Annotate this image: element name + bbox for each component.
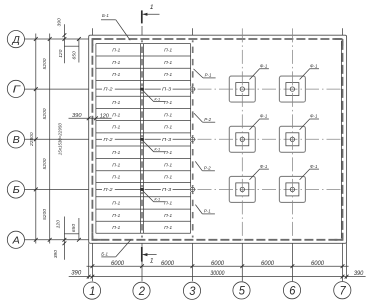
dim tick xyxy=(34,188,38,192)
axis bubble Б xyxy=(7,181,24,198)
svg-text:6000: 6000 xyxy=(111,260,124,267)
beam label Б-1 top xyxy=(101,13,130,40)
svg-text:П-1: П-1 xyxy=(112,174,121,179)
row line xyxy=(115,138,140,140)
svg-text:В: В xyxy=(13,134,20,146)
svg-text:П-1: П-1 xyxy=(112,100,121,105)
axis line below plan to bubble xyxy=(191,243,193,281)
dim chain line (15x1530) bottom xyxy=(63,217,65,260)
svg-text:Ф-1: Ф-1 xyxy=(260,64,268,69)
joint label К-1 leader xyxy=(143,191,165,202)
svg-text:П-1: П-1 xyxy=(164,60,173,65)
svg-text:Б: Б xyxy=(13,184,20,196)
joint label К-1 leader xyxy=(143,90,165,101)
axis bubble А xyxy=(7,231,24,248)
footing center pile circle xyxy=(290,87,294,91)
axis stub above plan xyxy=(91,28,93,35)
svg-text:390: 390 xyxy=(53,250,58,259)
svg-text:6000: 6000 xyxy=(311,260,324,267)
wall corner dash xyxy=(91,233,93,240)
svg-text:П-1: П-1 xyxy=(164,125,173,130)
footing Ф-1 outer square xyxy=(279,176,305,202)
svg-text:П-2: П-2 xyxy=(103,137,113,142)
beam label Р-2 xyxy=(194,113,215,122)
axis stub above plan xyxy=(191,28,193,35)
beam label Р-1 xyxy=(194,69,216,78)
node at axis 3 (circle with cross) xyxy=(189,136,196,143)
section mark bottom bar xyxy=(141,247,143,262)
joint label К-1 leader xyxy=(143,141,165,152)
axis bubble В xyxy=(7,131,24,148)
dim tick xyxy=(48,238,52,242)
svg-text:Ф-1: Ф-1 xyxy=(310,114,318,119)
svg-text:5200: 5200 xyxy=(42,158,48,169)
axis line below plan to bubble xyxy=(291,243,293,281)
axis bubble 7 xyxy=(334,282,351,299)
node at axis 3 (circle with cross) xyxy=(189,186,196,193)
footing inner square xyxy=(286,133,299,146)
axis bubble 6 xyxy=(283,282,300,299)
row line xyxy=(173,188,190,190)
svg-text:6000: 6000 xyxy=(261,260,274,267)
dim tick xyxy=(34,37,38,41)
dim chain line (5200 intervals) xyxy=(35,34,37,244)
slab joint line xyxy=(96,208,191,210)
extension line outer face right xyxy=(346,243,348,278)
slab joint line xyxy=(96,120,191,122)
dim tick xyxy=(34,87,38,91)
slab joint line xyxy=(96,80,191,82)
beam label Р-1 xyxy=(195,205,215,214)
centerline to right wall xyxy=(198,188,342,190)
wall corner dash xyxy=(91,39,93,46)
building outer contour xyxy=(89,35,347,243)
dim tick xyxy=(341,264,345,268)
slab joint line xyxy=(96,108,191,110)
beam on axis 3 (hidden, thick dashed) xyxy=(192,40,194,237)
section mark top bar xyxy=(141,10,143,23)
svg-text:Ф-1: Ф-1 xyxy=(260,114,268,119)
svg-text:П-2: П-2 xyxy=(103,187,113,192)
svg-text:650: 650 xyxy=(71,51,76,60)
footing label Ф-1 leader xyxy=(300,69,319,80)
svg-text:П-1: П-1 xyxy=(164,150,173,155)
axis stub above plan xyxy=(342,28,344,35)
footing label Ф-1 leader xyxy=(250,69,269,80)
row axis line from bubble xyxy=(25,138,89,140)
svg-text:5: 5 xyxy=(239,284,245,298)
svg-text:30000: 30000 xyxy=(210,270,224,277)
slab edge right of axis 2 xyxy=(143,44,145,234)
wall corner dash xyxy=(92,38,100,40)
svg-text:П-1: П-1 xyxy=(164,225,173,230)
footing inner square xyxy=(236,183,249,196)
footing inner square xyxy=(286,183,299,196)
dim tick xyxy=(77,37,81,41)
wall corner dash xyxy=(335,38,343,40)
axis line below plan to bubble xyxy=(91,243,93,281)
extension line outer face left xyxy=(88,243,90,278)
row axis stub left xyxy=(96,88,102,90)
dim row line (6000 intervals) xyxy=(87,265,349,267)
slab joint line xyxy=(96,43,191,45)
slab field left edge xyxy=(95,44,97,234)
footing center pile circle xyxy=(290,137,294,141)
row line xyxy=(115,88,140,90)
dim connector top xyxy=(64,45,79,47)
dim tick xyxy=(63,241,67,245)
dim tick xyxy=(91,264,95,268)
axis bubble 2 xyxy=(133,282,150,299)
row axis stub left xyxy=(96,188,102,190)
svg-text:П-1: П-1 xyxy=(164,100,173,105)
row line xyxy=(145,138,161,140)
svg-text:1: 1 xyxy=(150,257,154,264)
svg-text:П-1: П-1 xyxy=(112,150,121,155)
dim tick xyxy=(94,116,98,120)
svg-text:П-3: П-3 xyxy=(162,87,172,92)
slab joint line xyxy=(96,196,191,198)
wall corner dash xyxy=(342,39,344,46)
svg-text:5200: 5200 xyxy=(42,58,48,69)
dim line 650 bottom xyxy=(78,218,80,240)
axis line below plan to bubble xyxy=(342,243,344,281)
beam label Р-2 xyxy=(195,161,215,170)
node at axis 3 (circle with cross) xyxy=(189,86,196,93)
footing center pile circle xyxy=(240,137,244,141)
footing center pile circle xyxy=(290,187,294,191)
svg-text:5200: 5200 xyxy=(42,209,48,220)
foundation beam hidden contour (thick dashed on grid rectangle) xyxy=(92,39,342,240)
footing inner square xyxy=(236,133,249,146)
svg-text:К-1: К-1 xyxy=(154,147,160,152)
dim tick xyxy=(63,238,67,242)
row line xyxy=(173,88,190,90)
section mark top tick xyxy=(143,13,160,15)
dim tick xyxy=(341,275,345,279)
svg-text:22800: 22800 xyxy=(29,132,35,147)
axis bubble Д xyxy=(7,30,24,47)
dim tick xyxy=(140,264,144,268)
footing label Ф-1 leader xyxy=(300,119,319,130)
node at axis 2 xyxy=(140,188,143,191)
beam label Б-1 bottom xyxy=(101,240,131,257)
row axis line from bubble xyxy=(25,239,89,241)
svg-text:П-2: П-2 xyxy=(103,87,113,92)
centerline to right wall xyxy=(198,88,342,90)
footing center pile circle xyxy=(240,87,244,91)
svg-text:П-3: П-3 xyxy=(162,137,172,142)
slab field right edge at axis 3 xyxy=(190,44,192,234)
slab joint line xyxy=(96,232,191,234)
node at axis 2 xyxy=(140,138,143,141)
svg-text:Р-2: Р-2 xyxy=(204,117,211,122)
wall corner dash xyxy=(92,239,100,241)
row axis stub left xyxy=(96,138,102,140)
svg-text:П-1: П-1 xyxy=(164,174,173,179)
svg-text:Р-1: Р-1 xyxy=(205,73,212,78)
offset dim line at row В xyxy=(69,117,112,119)
axis line below plan to bubble xyxy=(241,243,243,281)
svg-text:390: 390 xyxy=(71,270,81,277)
footing Ф-1 outer square xyxy=(229,176,255,202)
svg-text:К-1: К-1 xyxy=(154,197,160,202)
svg-text:П-1: П-1 xyxy=(164,162,173,167)
svg-text:Р-2: Р-2 xyxy=(204,166,211,171)
footing inner square xyxy=(236,83,249,96)
svg-text:А: А xyxy=(12,235,20,247)
svg-text:П-3: П-3 xyxy=(162,187,172,192)
dim tick xyxy=(291,264,295,268)
svg-text:П-1: П-1 xyxy=(112,213,121,218)
svg-text:П-1: П-1 xyxy=(112,162,121,167)
axis bubble 1 xyxy=(83,282,100,299)
inner edge right xyxy=(340,41,342,238)
dim connector bottom xyxy=(64,233,79,235)
dim tick xyxy=(345,275,349,279)
row line xyxy=(145,88,161,90)
svg-text:П-1: П-1 xyxy=(112,125,121,130)
svg-text:390: 390 xyxy=(354,270,364,277)
svg-text:6000: 6000 xyxy=(161,260,174,267)
svg-text:П-1: П-1 xyxy=(112,201,121,206)
dim tick xyxy=(240,264,244,268)
footing label Ф-1 leader xyxy=(250,119,269,130)
dim tick xyxy=(63,37,67,41)
footing center pile circle xyxy=(240,187,244,191)
svg-text:П-1: П-1 xyxy=(164,48,173,53)
svg-text:П-1: П-1 xyxy=(164,72,173,77)
axis bubble Г xyxy=(7,80,24,97)
svg-text:П-1: П-1 xyxy=(164,201,173,206)
dim tick xyxy=(34,137,38,141)
dim row line (total 30000) xyxy=(69,276,366,278)
row axis line from bubble xyxy=(25,88,89,90)
footing label Ф-1 leader xyxy=(300,169,319,180)
dim tick xyxy=(63,33,67,37)
svg-text:Ф-1: Ф-1 xyxy=(310,64,318,69)
dim chain line (15x1530) top xyxy=(63,24,65,63)
svg-text:6: 6 xyxy=(289,284,295,298)
svg-text:1: 1 xyxy=(89,284,95,298)
slab joint line xyxy=(96,95,191,97)
slab joint line xyxy=(96,157,191,159)
dim tick xyxy=(191,264,195,268)
axis bubble 3 xyxy=(183,282,200,299)
axis bubble 5 xyxy=(233,282,250,299)
svg-text:П-1: П-1 xyxy=(112,225,121,230)
dim tick xyxy=(91,275,95,279)
axis centerline vertical xyxy=(291,28,293,243)
svg-text:П-1: П-1 xyxy=(164,213,173,218)
slab joint line xyxy=(96,145,191,147)
svg-text:15х1530=22950: 15х1530=22950 xyxy=(57,123,62,155)
dim tick xyxy=(87,116,91,120)
footing Ф-1 outer square xyxy=(279,76,305,102)
wall corner dash xyxy=(342,233,344,240)
svg-text:Б-1: Б-1 xyxy=(102,13,109,18)
svg-text:Ф-1: Ф-1 xyxy=(260,164,268,169)
dim tick xyxy=(77,238,81,242)
slab joint line xyxy=(96,55,191,57)
axis line below plan to bubble xyxy=(141,243,143,281)
slab joint line xyxy=(96,67,191,69)
svg-text:Р-1: Р-1 xyxy=(204,209,211,214)
row line xyxy=(145,188,161,190)
slab joint line xyxy=(96,182,191,184)
footing Ф-1 outer square xyxy=(279,126,305,152)
svg-text:390: 390 xyxy=(57,18,62,27)
svg-text:6000: 6000 xyxy=(211,260,224,267)
svg-text:120: 120 xyxy=(58,49,63,58)
section mark bottom tick xyxy=(143,254,157,256)
slab joint line xyxy=(96,132,191,134)
svg-text:120: 120 xyxy=(55,220,60,229)
svg-text:П-1: П-1 xyxy=(112,48,121,53)
row axis line from bubble xyxy=(25,38,89,40)
section mark bottom arrow xyxy=(143,253,148,256)
svg-text:Б-1: Б-1 xyxy=(101,252,108,257)
footing label Ф-1 leader xyxy=(250,169,269,180)
row axis line from bubble xyxy=(25,188,89,190)
row line xyxy=(173,138,190,140)
svg-text:П-1: П-1 xyxy=(112,60,121,65)
dim tick xyxy=(87,275,91,279)
footing Ф-1 outer square xyxy=(229,126,255,152)
dim line 650 top xyxy=(78,39,80,63)
svg-text:Ф-1: Ф-1 xyxy=(310,164,318,169)
slab joint line xyxy=(96,170,191,172)
svg-text:650: 650 xyxy=(71,223,76,232)
slab joint line xyxy=(96,220,191,222)
row line xyxy=(115,188,140,190)
svg-text:К-1: К-1 xyxy=(154,96,160,101)
axis 2 stub above plan xyxy=(141,26,143,35)
svg-text:П-1: П-1 xyxy=(112,112,121,117)
svg-text:3: 3 xyxy=(189,284,195,298)
svg-text:П-1: П-1 xyxy=(164,112,173,117)
svg-text:1: 1 xyxy=(150,4,154,11)
footing inner square xyxy=(286,83,299,96)
dim chain line (total 22800) xyxy=(49,34,51,244)
axis centerline vertical xyxy=(241,28,243,243)
svg-text:П-1: П-1 xyxy=(112,72,121,77)
wall corner dash xyxy=(335,239,343,241)
node at axis 2 xyxy=(140,88,143,91)
beam on axis 2 (hidden, thick dashed) xyxy=(141,40,143,237)
svg-text:120: 120 xyxy=(100,113,109,119)
centerline to right wall xyxy=(198,138,342,140)
svg-text:Д: Д xyxy=(12,34,21,46)
svg-text:5200: 5200 xyxy=(42,108,48,119)
section mark top arrow xyxy=(143,13,148,16)
svg-text:2: 2 xyxy=(138,284,145,298)
slab edge left of axis 2 xyxy=(139,44,141,234)
svg-text:390: 390 xyxy=(72,113,82,119)
dim tick xyxy=(34,238,38,242)
dim tick xyxy=(48,37,52,41)
footing Ф-1 outer square xyxy=(229,76,255,102)
